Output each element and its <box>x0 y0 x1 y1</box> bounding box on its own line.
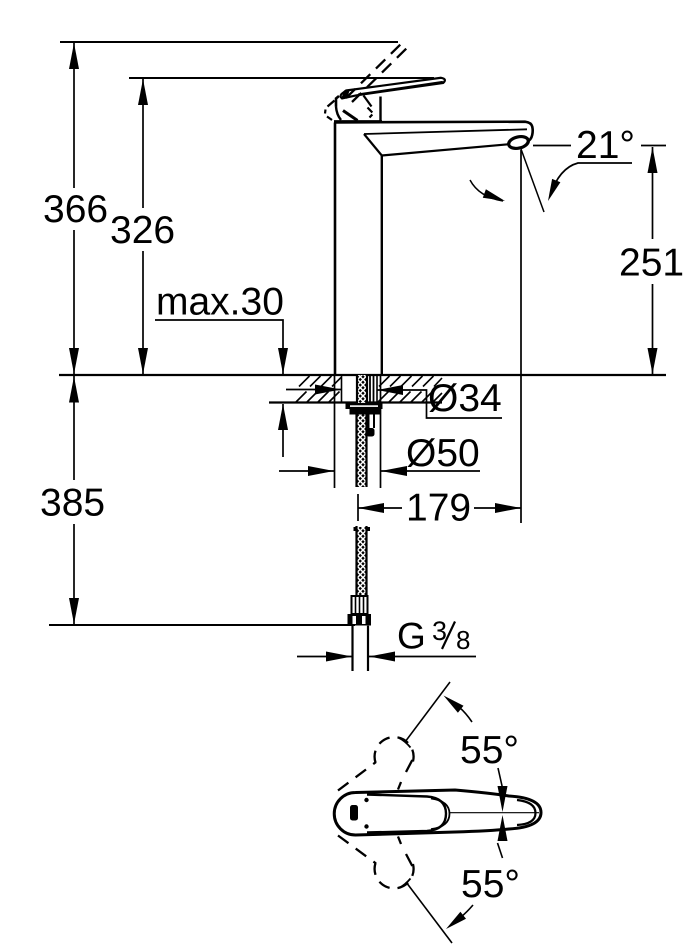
svg-text:385: 385 <box>40 482 105 525</box>
wire: 326 extension line <box>129 77 434 79</box>
arrow 55 upper <box>444 696 464 713</box>
washer <box>346 404 383 410</box>
wire: 326 dimension line <box>142 79 144 374</box>
arrow max30 down <box>278 348 288 374</box>
lever blade outline <box>341 78 445 99</box>
arrow 326 top <box>138 79 148 105</box>
wire: o50 left arrow line <box>279 470 334 472</box>
wire: o34 left arrow line <box>286 389 341 391</box>
svg-text:21°: 21° <box>576 124 635 167</box>
faucet body left edge <box>334 123 337 375</box>
wire: slash of G3/8 <box>442 622 455 650</box>
wire: 385 bottom extension line <box>49 624 355 626</box>
arrowheads <box>69 43 658 662</box>
mounting nut <box>350 409 382 415</box>
lever raised dashed skirt <box>325 101 335 121</box>
arrow 385 bottom <box>69 598 79 624</box>
arrow o50 left <box>308 466 334 476</box>
arrow G38 right <box>369 652 395 662</box>
wire: o50 right underline <box>381 470 480 472</box>
dome/body joint band <box>334 120 382 123</box>
wire: 179 left extension <box>357 494 359 521</box>
arrow 366 bottom <box>69 348 79 374</box>
55deg upper angle line <box>405 682 450 742</box>
hose braid below nut <box>357 415 367 488</box>
center line <box>449 812 539 814</box>
arrow bowtie upper <box>498 786 508 812</box>
cartridge dome left outline <box>336 96 339 107</box>
wire: 179 dimension line <box>358 507 521 509</box>
wire: 251 top extension from aerator <box>533 145 666 147</box>
svg-text:Ø34: Ø34 <box>428 377 502 420</box>
arrow swivel arc <box>483 189 505 201</box>
dot marks on handle <box>364 798 368 802</box>
wire: 21deg water stream line <box>521 149 544 212</box>
shank braid fill <box>357 375 367 403</box>
wire: swivel arc arrow near spout <box>470 180 503 201</box>
counter hatching <box>296 376 442 402</box>
pull rod tube in counter <box>369 376 371 403</box>
faucet body inner right edge <box>381 156 383 375</box>
svg-text:G: G <box>397 616 426 657</box>
55deg lower angle line <box>406 882 452 943</box>
lever inner stadium <box>367 795 446 833</box>
dashed handle rotated down <box>338 836 376 864</box>
cartridge dome inner diagonal <box>364 96 372 107</box>
counter bottom line <box>269 401 442 403</box>
svg-text:55°: 55° <box>460 729 519 772</box>
svg-text:Ø50: Ø50 <box>406 432 480 475</box>
shank edges <box>356 375 358 403</box>
arrow 179 right <box>495 503 521 513</box>
spout funnel transition <box>364 134 382 156</box>
hose lower braid <box>357 527 367 596</box>
pull rod tip <box>366 428 375 437</box>
connection pipe G3/8 <box>351 626 353 671</box>
arrow 366 top <box>69 43 79 69</box>
arrow 179 left <box>358 503 384 513</box>
wire: 385 dimension line <box>73 376 75 624</box>
wire: o50 extension lines <box>335 376 381 488</box>
counter top line <box>59 374 666 376</box>
cartridge dome left arc <box>336 107 341 121</box>
55deg upper arrow tail <box>459 707 472 722</box>
lever raised dashed line 2 <box>352 45 410 102</box>
svg-text:55°: 55° <box>461 863 520 906</box>
temp indicator mark <box>350 805 358 821</box>
arrow o50 right <box>381 466 407 476</box>
lever inner cap second arc <box>431 799 450 830</box>
arrow o34 right <box>377 385 403 395</box>
threaded shank with braid <box>346 375 383 671</box>
arrow 251 top <box>648 147 658 173</box>
wire: 21deg underline and curved leader <box>550 163 632 196</box>
bowtie lower stub <box>498 843 503 858</box>
pull rod below counter <box>368 410 370 428</box>
arrow o34 left <box>315 385 341 395</box>
wire: 179/251 right extension from aerator <box>520 150 522 523</box>
wire: G3/8 arrow lines <box>297 656 476 658</box>
wire: 366 dimension line <box>73 43 75 374</box>
cartridge dome chamfer <box>343 111 358 121</box>
wire: 251 dimension line <box>652 147 654 374</box>
hose ferrule <box>352 596 368 614</box>
spout top-face line <box>364 129 527 134</box>
lever raised dashed line 1 <box>346 41 404 98</box>
mounting hole left edge <box>341 376 343 403</box>
svg-text:326: 326 <box>110 209 175 252</box>
svg-text:366: 366 <box>43 188 108 231</box>
svg-text:8: 8 <box>456 625 470 655</box>
wire: 366 top extension line <box>60 41 398 43</box>
arrow 55 lower <box>446 912 466 929</box>
spout underside <box>382 144 508 155</box>
hose lower segment cap <box>354 527 371 531</box>
dashed handle rotated up <box>338 762 376 791</box>
wire: o34 right leader to label <box>377 390 502 418</box>
arrow G38 left <box>326 652 352 662</box>
cartridge dome right edge <box>379 97 381 122</box>
wire: max.30 underline + leader down <box>155 320 283 374</box>
dome dashed corner right <box>368 108 373 118</box>
spout top edge and nose <box>335 122 533 142</box>
svg-text:179: 179 <box>406 487 471 530</box>
arrow 385 top <box>69 377 79 403</box>
lever blade dark lower band <box>357 81 443 95</box>
aerator <box>507 135 529 150</box>
arrow bowtie lower <box>498 815 508 841</box>
arrow 21deg leader <box>548 179 560 201</box>
hose end nut <box>348 614 372 626</box>
bowtie upper stub <box>498 768 503 788</box>
mounting hole right edge <box>376 376 378 403</box>
arrow max30 up <box>278 404 288 430</box>
wire: max.30 lower arrow line <box>282 404 284 457</box>
arrow 251 bottom <box>648 348 658 374</box>
55deg lower arrow tail <box>461 905 473 917</box>
lever blade back claw <box>341 90 350 99</box>
svg-text:251: 251 <box>619 242 684 285</box>
spout inner arc top view <box>517 800 536 825</box>
handle outline top view <box>334 790 541 835</box>
svg-text:max.30: max.30 <box>156 281 284 324</box>
arrow 326 bottom <box>138 348 148 374</box>
